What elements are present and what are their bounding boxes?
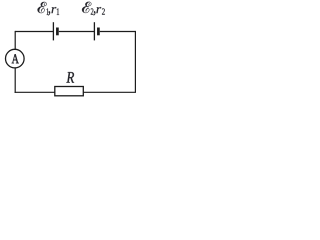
wire top-right segment xyxy=(100,31,136,33)
battery E1 xyxy=(53,22,57,40)
wire right side xyxy=(134,31,136,92)
ammeter A xyxy=(6,49,25,68)
resistor R xyxy=(55,87,84,96)
wire top-left segment xyxy=(15,31,53,33)
battery E2 xyxy=(94,22,98,40)
label E2,r2 xyxy=(82,2,105,16)
wire bottom-right segment xyxy=(83,91,136,93)
wire left lower segment xyxy=(14,68,16,93)
wire left upper segment xyxy=(14,31,16,50)
label R xyxy=(66,72,74,83)
wire bottom-left segment xyxy=(15,91,55,94)
wire between batteries xyxy=(59,31,95,33)
label E1,r1 xyxy=(38,2,60,16)
